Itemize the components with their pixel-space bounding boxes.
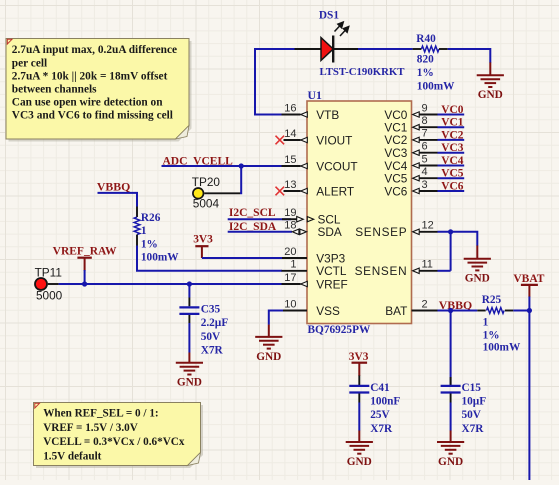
svg-text:GND: GND — [478, 89, 503, 101]
pin 6 wire and net label VC3 — [413, 150, 465, 155]
pin 19 stub SCL — [282, 218, 297, 220]
svg-text:50V: 50V — [462, 409, 482, 421]
ground for VSS — [268, 325, 270, 337]
pin 16 stub — [282, 114, 301, 116]
svg-text:GND: GND — [256, 351, 281, 363]
svg-text:1%: 1% — [483, 329, 500, 341]
svg-text:ALERT: ALERT — [316, 184, 354, 198]
pin 11 SENSEN wire — [413, 268, 451, 273]
svg-text:100mW: 100mW — [417, 80, 455, 92]
LED DS1 — [295, 22, 359, 62]
svg-text:11: 11 — [422, 259, 433, 271]
junction VREF_RAW tap — [82, 281, 87, 286]
svg-text:100mW: 100mW — [483, 341, 521, 353]
junction VBAT — [527, 308, 532, 313]
svg-text:10: 10 — [284, 298, 296, 310]
resistor R25 — [477, 308, 513, 314]
svg-text:7: 7 — [422, 128, 428, 140]
capacitor C15 — [441, 377, 461, 431]
test point TP20 — [193, 188, 240, 199]
svg-text:VTB: VTB — [316, 108, 339, 122]
svg-text:8: 8 — [422, 115, 428, 127]
wire 3V3 to pin 20 — [202, 257, 307, 259]
svg-text:VIOUT: VIOUT — [316, 133, 352, 147]
svg-text:1%: 1% — [417, 67, 434, 79]
svg-text:5000: 5000 — [36, 289, 63, 303]
svg-text:SDA: SDA — [318, 225, 342, 239]
pin 4 wire and net label VC5 — [413, 176, 465, 181]
svg-text:2.7uA * 10k || 20k = 18mV offs: 2.7uA * 10k || 20k = 18mV offset — [12, 70, 168, 82]
svg-text:6: 6 — [422, 141, 428, 153]
svg-text:100nF: 100nF — [370, 396, 400, 408]
wire TP20 to ADC_VCELL — [240, 166, 241, 193]
svg-text:VCTL: VCTL — [316, 264, 347, 278]
svg-text:X7R: X7R — [370, 423, 393, 435]
svg-text:3: 3 — [422, 179, 428, 191]
svg-text:2: 2 — [422, 298, 428, 310]
svg-text:25V: 25V — [370, 409, 390, 421]
svg-text:1: 1 — [141, 225, 147, 237]
svg-text:1: 1 — [483, 317, 489, 329]
svg-text:4: 4 — [422, 166, 428, 178]
no-ERC marker pin 14 — [276, 136, 285, 145]
svg-text:SENSEP: SENSEP — [355, 225, 407, 239]
svg-text:17: 17 — [284, 272, 296, 284]
svg-text:C35: C35 — [201, 303, 221, 315]
U1 pin names — [316, 108, 407, 318]
svg-text:5: 5 — [422, 153, 428, 165]
svg-text:I2C_SCL: I2C_SCL — [229, 207, 276, 219]
IC U1 BQ76925PW body — [307, 101, 412, 324]
svg-text:SENSEN: SENSEN — [355, 264, 408, 278]
svg-text:100mW: 100mW — [141, 251, 179, 263]
svg-text:820: 820 — [417, 54, 434, 66]
capacitor C35 — [179, 284, 199, 353]
svg-text:2.2µF: 2.2µF — [201, 317, 229, 329]
resistor R26 — [134, 207, 140, 246]
ground for C41 — [358, 431, 360, 443]
svg-text:R25: R25 — [482, 294, 502, 306]
svg-text:When REF_SEL = 0 / 1:: When REF_SEL = 0 / 1: — [43, 407, 158, 419]
svg-text:DS1: DS1 — [319, 9, 339, 21]
svg-text:VREF = 1.5V / 3.0V: VREF = 1.5V / 3.0V — [43, 422, 138, 434]
svg-text:VREF_RAW: VREF_RAW — [53, 245, 117, 257]
svg-text:X7R: X7R — [201, 345, 224, 357]
svg-text:19: 19 — [284, 207, 296, 219]
wire R40 to GND — [448, 49, 491, 63]
pin 13 stub ALERT — [284, 190, 301, 192]
svg-text:13: 13 — [284, 179, 296, 191]
ground for R40 — [489, 62, 491, 75]
ground for SENSEP — [476, 246, 478, 259]
svg-text:C15: C15 — [462, 382, 482, 394]
wire VBAT rail down — [528, 311, 530, 481]
wire VSS pin 10 to GND — [282, 310, 307, 312]
svg-text:VCELL = 0.3*VCx / 0.6*VCx: VCELL = 0.3*VCx / 0.6*VCx — [43, 436, 185, 448]
svg-text:VC4: VC4 — [441, 155, 463, 167]
pin 8 wire and net label VC1 — [413, 125, 465, 130]
svg-text:50V: 50V — [201, 331, 221, 343]
svg-text:1%: 1% — [141, 238, 158, 250]
svg-text:VC3: VC3 — [441, 142, 463, 154]
test point TP11 — [35, 278, 59, 290]
svg-text:18: 18 — [284, 220, 296, 232]
svg-text:U1: U1 — [308, 88, 323, 102]
svg-text:GND: GND — [177, 377, 202, 389]
svg-text:1: 1 — [290, 259, 296, 271]
svg-text:Can use open wire detection on: Can use open wire detection on — [12, 96, 163, 108]
svg-text:VC6: VC6 — [441, 181, 463, 193]
svg-text:C41: C41 — [370, 382, 390, 394]
junction C35 tap — [187, 281, 192, 286]
svg-text:BAT: BAT — [385, 304, 407, 318]
pin 12 SENSEP wire — [413, 229, 478, 246]
capacitor C41 — [349, 376, 369, 431]
pin 1 stub — [282, 270, 308, 272]
svg-text:VC6: VC6 — [384, 184, 407, 198]
svg-text:between channels: between channels — [12, 83, 97, 95]
ground for C35 — [188, 353, 190, 363]
svg-text:2.7uA input max, 0.2uA differe: 2.7uA input max, 0.2uA difference — [12, 44, 177, 56]
svg-text:VCOUT: VCOUT — [316, 159, 357, 173]
pin 3 wire and net label VC6 — [413, 188, 465, 193]
svg-text:GND: GND — [465, 273, 490, 285]
svg-text:12: 12 — [422, 220, 434, 232]
svg-text:BQ76925PW: BQ76925PW — [308, 324, 371, 336]
pin 18 stub SDA bidirectional arrows — [292, 229, 299, 234]
pin 14 stub VIOUT — [284, 139, 301, 141]
wire R26 to pin 1 VCTL — [137, 246, 282, 271]
svg-text:R40: R40 — [416, 33, 436, 45]
pin 9 wire and net label VC0 — [413, 112, 465, 117]
svg-text:VBBQ: VBBQ — [97, 179, 130, 193]
wire R25 to VBAT — [513, 310, 529, 312]
pin 5 wire and net label VC4 — [413, 163, 465, 168]
svg-text:VC2: VC2 — [441, 129, 463, 141]
svg-text:X7R: X7R — [462, 423, 485, 435]
svg-text:1.5V default: 1.5V default — [43, 451, 101, 463]
ground for C15 — [450, 431, 452, 443]
svg-text:VC3 and VC6 to find missing ce: VC3 and VC6 to find missing cell — [12, 109, 173, 121]
note N2 (REF_SEL note) — [34, 403, 204, 469]
svg-text:VC0: VC0 — [441, 104, 463, 116]
svg-text:VC5: VC5 — [441, 168, 463, 180]
svg-text:LTST-C190KRKT: LTST-C190KRKT — [320, 66, 406, 78]
svg-text:GND: GND — [347, 456, 372, 468]
wire SCL — [228, 218, 291, 220]
pin 17 stub VREF — [282, 283, 301, 285]
no-ERC marker pin 13 — [276, 187, 285, 196]
junction SENSEP-SENSEN — [448, 229, 453, 234]
wire SENSEN to SENSEP — [450, 232, 452, 271]
pin 15 stub VCOUT — [282, 165, 301, 167]
wire SDA — [228, 231, 292, 233]
wire LED cathode to R40 — [358, 48, 413, 50]
svg-text:10µF: 10µF — [462, 396, 487, 408]
wire ADC_VCELL to pin 15 — [162, 165, 282, 167]
svg-text:VSS: VSS — [316, 304, 340, 318]
svg-text:3V3: 3V3 — [193, 233, 213, 245]
note N1 (design note) — [6, 39, 192, 142]
svg-text:9: 9 — [422, 102, 428, 114]
wire VBBQ to R26 — [98, 193, 138, 207]
svg-text:R26: R26 — [141, 212, 161, 224]
svg-text:15: 15 — [284, 154, 296, 166]
resistor R40 — [413, 46, 448, 52]
svg-text:14: 14 — [284, 128, 296, 140]
svg-text:20: 20 — [284, 246, 296, 258]
svg-text:TP20: TP20 — [192, 175, 221, 189]
wire VTB net (pin 16 to LED anode) — [255, 49, 296, 115]
pin 7 wire and net label VC2 — [413, 137, 465, 142]
wire BAT to R25 — [438, 310, 478, 312]
svg-text:16: 16 — [284, 102, 296, 114]
svg-text:TP11: TP11 — [35, 266, 62, 280]
wire VREF net (TP11 to pin 17) — [59, 283, 282, 285]
svg-text:GND: GND — [438, 456, 463, 468]
junction TP20 tap — [239, 163, 244, 168]
svg-text:5004: 5004 — [193, 196, 220, 210]
junction VBBQ/C15 — [448, 308, 453, 313]
svg-text:per cell: per cell — [12, 57, 47, 69]
pin 2 BAT stub — [412, 310, 438, 312]
svg-text:3V3: 3V3 — [349, 351, 369, 363]
svg-text:VREF: VREF — [316, 277, 347, 291]
U1 pin numbers — [284, 102, 434, 310]
svg-text:VBAT: VBAT — [513, 273, 544, 285]
svg-text:VC1: VC1 — [441, 117, 463, 129]
wire VBBQ to C15 — [450, 311, 452, 387]
